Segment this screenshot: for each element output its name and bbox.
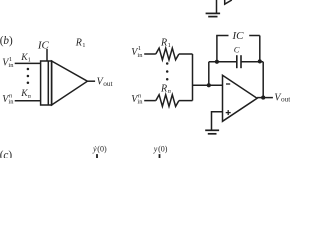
wire (b: input n) [15, 100, 41, 102]
svg-text:n: n [28, 93, 31, 100]
svg-text:R: R [160, 37, 167, 48]
junction (inverting node) [207, 83, 211, 87]
op-amp triangle (b) [52, 61, 88, 105]
junction (IC tap left) [215, 60, 219, 64]
svg-text:1: 1 [82, 42, 85, 49]
capacitor C [237, 55, 241, 68]
svg-text:IC: IC [37, 39, 50, 51]
wire (op-amp output) [257, 97, 273, 99]
junction (output node) [261, 96, 265, 100]
wire (bus vertical) [192, 54, 194, 101]
wire (right: Vin1 to R1) [144, 53, 156, 55]
op-amp U1 [223, 75, 258, 121]
integrator block inner divider (b) [47, 61, 49, 105]
ground (circuit a) [206, 13, 221, 16]
op-amp minus sign [226, 83, 230, 85]
wire (b: output) [87, 80, 95, 82]
svg-text:in: in [137, 99, 143, 106]
wire (capacitor branch left horizontal) [209, 61, 237, 63]
svg-text:n: n [168, 88, 171, 95]
svg-text:out: out [281, 95, 290, 104]
svg-text:in: in [137, 52, 143, 59]
wire (capacitor branch right horizontal) [241, 61, 263, 63]
wire (b: IC stem) [46, 49, 48, 61]
svg-text:(b): (b) [0, 35, 13, 47]
svg-text:1: 1 [168, 42, 171, 49]
svg-text:1: 1 [138, 45, 141, 52]
svg-text:R: R [160, 83, 167, 94]
svg-text:y: y [153, 144, 158, 153]
resistor R1 [156, 48, 179, 60]
switch IC (open branch over capacitor) [216, 36, 218, 62]
svg-text:ẏ: ẏ [92, 144, 97, 153]
wire (feedback vertical, inverting node up to capacitor branch) [208, 62, 210, 86]
svg-text:in: in [8, 62, 14, 69]
ground (op-amp + input) [205, 130, 219, 134]
wire (feedback to output node) [262, 62, 264, 98]
wire (non-inverting input to ground) [212, 112, 223, 130]
svg-text:C: C [234, 45, 240, 55]
wire (right: Vinn to Rn) [144, 100, 156, 102]
resistor Rn [156, 95, 179, 107]
svg-text:(c): (c) [0, 150, 12, 158]
wire (R1 to bus) [179, 53, 193, 55]
ellipsis dots (right) [166, 62, 169, 80]
ellipsis dots (b) [27, 68, 30, 84]
wire (Rn to bus) [179, 100, 193, 102]
wire (b: input 1) [15, 62, 41, 64]
wire (circuit a ground stem, cut at top) [216, 0, 218, 13]
wire (tick below ydot0) [96, 154, 98, 158]
junction (IC tap right) [258, 59, 262, 63]
svg-text:in: in [8, 99, 14, 106]
svg-text:IC: IC [232, 30, 245, 42]
svg-text:out: out [103, 79, 112, 88]
svg-text:R: R [75, 37, 82, 48]
svg-text:(0): (0) [158, 144, 168, 153]
op-amp plus sign [226, 110, 231, 115]
wire (tap to op-amp inverting input) [193, 84, 223, 86]
wire (tick below y0) [159, 154, 161, 158]
integrator block rectangle (b) [41, 61, 52, 105]
svg-text:1: 1 [28, 57, 31, 64]
op-amp U0 (partial bottom corner, circuit a) [225, 0, 232, 4]
svg-text:(0): (0) [97, 144, 107, 153]
